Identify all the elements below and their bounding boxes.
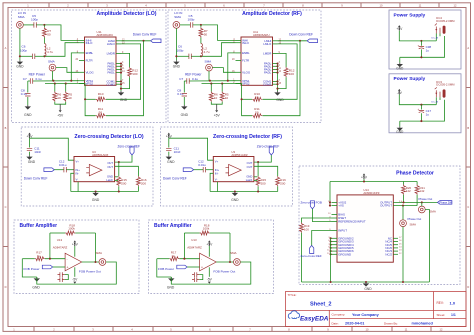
Zero-crossing Detector (RF) contents (163, 133, 286, 202)
svg-text:A: A (5, 46, 7, 50)
svg-text:Company:: Company: (332, 313, 346, 317)
Buffer Amplifier right contents (157, 223, 251, 289)
svg-text:1u: 1u (426, 112, 430, 116)
svg-text:B: B (467, 126, 469, 130)
svg-text:+5V: +5V (396, 27, 403, 31)
svg-text:GROUND: GROUND (338, 252, 351, 256)
svg-text:2: 2 (67, 3, 69, 7)
ground (399, 126, 401, 127)
svg-text:Zero-crossing Detector (LO): Zero-crossing Detector (LO) (74, 134, 143, 140)
svg-text:A: A (467, 46, 469, 50)
svg-text:Phase Diff: Phase Diff (440, 201, 453, 205)
svg-text:AD9901KPZ: AD9901KPZ (363, 191, 379, 195)
barrel jack DC3 DC005 (435, 87, 440, 97)
IC U14 AD9901KPZ (337, 195, 393, 262)
svg-text:142: 142 (420, 189, 425, 193)
wire FOB tag to REFERENCE/INPUT (312, 209, 331, 222)
bottom rail to gnd (400, 100, 445, 121)
svg-text:Sheet:: Sheet: (437, 313, 446, 317)
svg-text:+VS: +VS (338, 204, 344, 208)
+5V rail (363, 179, 365, 182)
power flag -5V (398, 91, 400, 95)
bottom rail to gnd (400, 36, 445, 57)
gnd rail (302, 281, 430, 283)
svg-text:12: 12 (454, 3, 457, 7)
svg-text:GND: GND (396, 66, 404, 70)
Amplitude Detector (RF) block outline (168, 10, 321, 123)
title block (286, 292, 467, 327)
svg-text:14: 14 (399, 247, 402, 249)
svg-text:4: 4 (145, 3, 147, 7)
svg-text:DC_IN: DC_IN (432, 38, 439, 40)
resistor R21 142 (416, 182, 418, 185)
connector SMA phase out 2 (400, 220, 407, 227)
net flag Zero-cross REF input (310, 245, 314, 253)
OUTPUT2 wire to SMA2 (393, 205, 417, 207)
EasyEDA logo (288, 311, 299, 319)
ground bus to rail (330, 238, 332, 282)
barrel jack DC4 DC005 (435, 23, 440, 33)
ground (399, 63, 401, 64)
svg-text:+5V: +5V (361, 176, 368, 180)
svg-text:Your Company: Your Company (352, 313, 380, 317)
svg-text:+: + (418, 107, 420, 111)
svg-text:Zero-cross REF: Zero-cross REF (301, 254, 322, 258)
svg-text:D: D (5, 285, 7, 289)
wire REF tag to INPUT (312, 231, 332, 246)
wire rail to +VS pins (329, 182, 331, 206)
svg-text:1u: 1u (426, 49, 430, 53)
Amplitude Detector (LO) block outline (12, 10, 167, 123)
svg-text:13: 13 (399, 250, 402, 252)
svg-text:DC005-2.0MM: DC005-2.0MM (436, 19, 455, 23)
OUTPUT wire to Phase Diff tag (393, 201, 437, 203)
resistor R19 100 (300, 223, 304, 233)
capacitor C38 1u (420, 40, 422, 42)
Amplitude Detector (LO) contents (16, 11, 161, 118)
svg-text:12: 12 (399, 253, 402, 255)
svg-text:Amplitude Detector (LO): Amplitude Detector (LO) (97, 11, 157, 17)
svg-text:13: 13 (328, 213, 331, 215)
connector SMA phase out 1 (418, 206, 425, 213)
svg-text:Buffer Amplifier: Buffer Amplifier (20, 223, 58, 229)
svg-text:Zero-crossing Detector (RF): Zero-crossing Detector (RF) (213, 134, 282, 140)
capacitor C17 1u (420, 104, 422, 106)
Buffer Amplifier left contents (22, 223, 116, 289)
svg-text:3: 3 (106, 3, 108, 7)
svg-text:mmohamed: mmohamed (412, 322, 434, 326)
svg-text:TITLE:: TITLE: (288, 293, 297, 297)
wire v to rail (399, 95, 436, 105)
svg-text:+: + (418, 43, 420, 47)
svg-text:Power Supply: Power Supply (394, 12, 426, 18)
Buffer Amplifier block outline (right) (149, 220, 274, 294)
svg-text:9: 9 (341, 3, 343, 7)
svg-text:GND: GND (396, 130, 404, 134)
svg-text:REV:: REV: (437, 301, 444, 305)
svg-text:7: 7 (263, 3, 265, 7)
Zero-crossing Detector (LO) contents (24, 133, 147, 202)
svg-text:C: C (5, 205, 7, 209)
svg-text:B: B (5, 126, 7, 130)
svg-text:Phase Out: Phase Out (408, 217, 422, 221)
power flag +5V (398, 27, 400, 31)
svg-text:INPUT: INPUT (338, 229, 347, 233)
svg-text:C: C (467, 205, 469, 209)
svg-text:Power Supply: Power Supply (394, 76, 426, 82)
svg-text:17: 17 (399, 237, 402, 239)
svg-text:11: 11 (419, 3, 422, 7)
svg-text:REFERENCE/INPUT: REFERENCE/INPUT (338, 220, 366, 224)
+5V power flag (363, 175, 365, 179)
svg-text:DC_IN: DC_IN (432, 101, 439, 103)
svg-text:Date:: Date: (332, 321, 339, 325)
svg-text:1/1: 1/1 (451, 313, 456, 317)
net flag Phase Diff (438, 201, 452, 205)
ground (365, 282, 367, 283)
svg-text:OUTPUT: OUTPUT (380, 204, 392, 208)
svg-text:-5V: -5V (397, 91, 403, 95)
svg-text:Amplitude Detector (RF): Amplitude Detector (RF) (242, 11, 302, 17)
wire SMA1 down to gnd rail (425, 210, 429, 283)
svg-text:EasyEDA: EasyEDA (300, 315, 329, 322)
svg-text:10: 10 (380, 3, 383, 7)
wire v to rail (399, 31, 436, 41)
svg-text:6: 6 (223, 3, 225, 7)
svg-text:2020-04-01: 2020-04-01 (345, 322, 364, 326)
Buffer Amplifier block outline (left) (14, 220, 139, 294)
Zero-crossing Detector (LO) block outline (21, 127, 153, 206)
svg-text:Buffer Amplifier: Buffer Amplifier (154, 223, 192, 229)
svg-text:16: 16 (399, 240, 402, 242)
Phase Detector block outline (299, 166, 460, 285)
svg-text:Phase Out: Phase Out (419, 197, 433, 201)
svg-text:5: 5 (184, 3, 186, 7)
svg-text:SMA: SMA (429, 210, 436, 214)
svg-text:Drawn By:: Drawn By: (384, 321, 398, 325)
svg-text:SMA: SMA (410, 222, 417, 226)
svg-text:Zero-cross FOB: Zero-cross FOB (301, 201, 322, 205)
svg-text:142: 142 (406, 189, 411, 193)
svg-text:NC/2: NC/2 (385, 252, 392, 256)
wire SMA2 down to gnd rail (402, 227, 404, 282)
wire RSET to R19 (302, 218, 332, 223)
svg-text:Phase Detector: Phase Detector (396, 171, 434, 177)
svg-text:15: 15 (399, 243, 402, 245)
svg-text:Sheet_2: Sheet_2 (310, 301, 331, 307)
resistor R20 142 (403, 182, 405, 185)
svg-text:100: 100 (304, 227, 309, 231)
Power Supply block (DC3) (389, 74, 461, 133)
Zero-crossing Detector (RF) block outline (161, 127, 293, 206)
svg-text:DC005-2.0MM: DC005-2.0MM (436, 83, 455, 87)
svg-text:1.0: 1.0 (450, 301, 456, 306)
Amplitude Detector (RF) contents (173, 11, 318, 118)
svg-text:GND: GND (364, 287, 372, 291)
svg-text:1: 1 (27, 3, 29, 7)
Power Supply block (DC4) (389, 10, 461, 69)
svg-text:8: 8 (302, 3, 304, 7)
svg-text:D: D (467, 285, 469, 289)
